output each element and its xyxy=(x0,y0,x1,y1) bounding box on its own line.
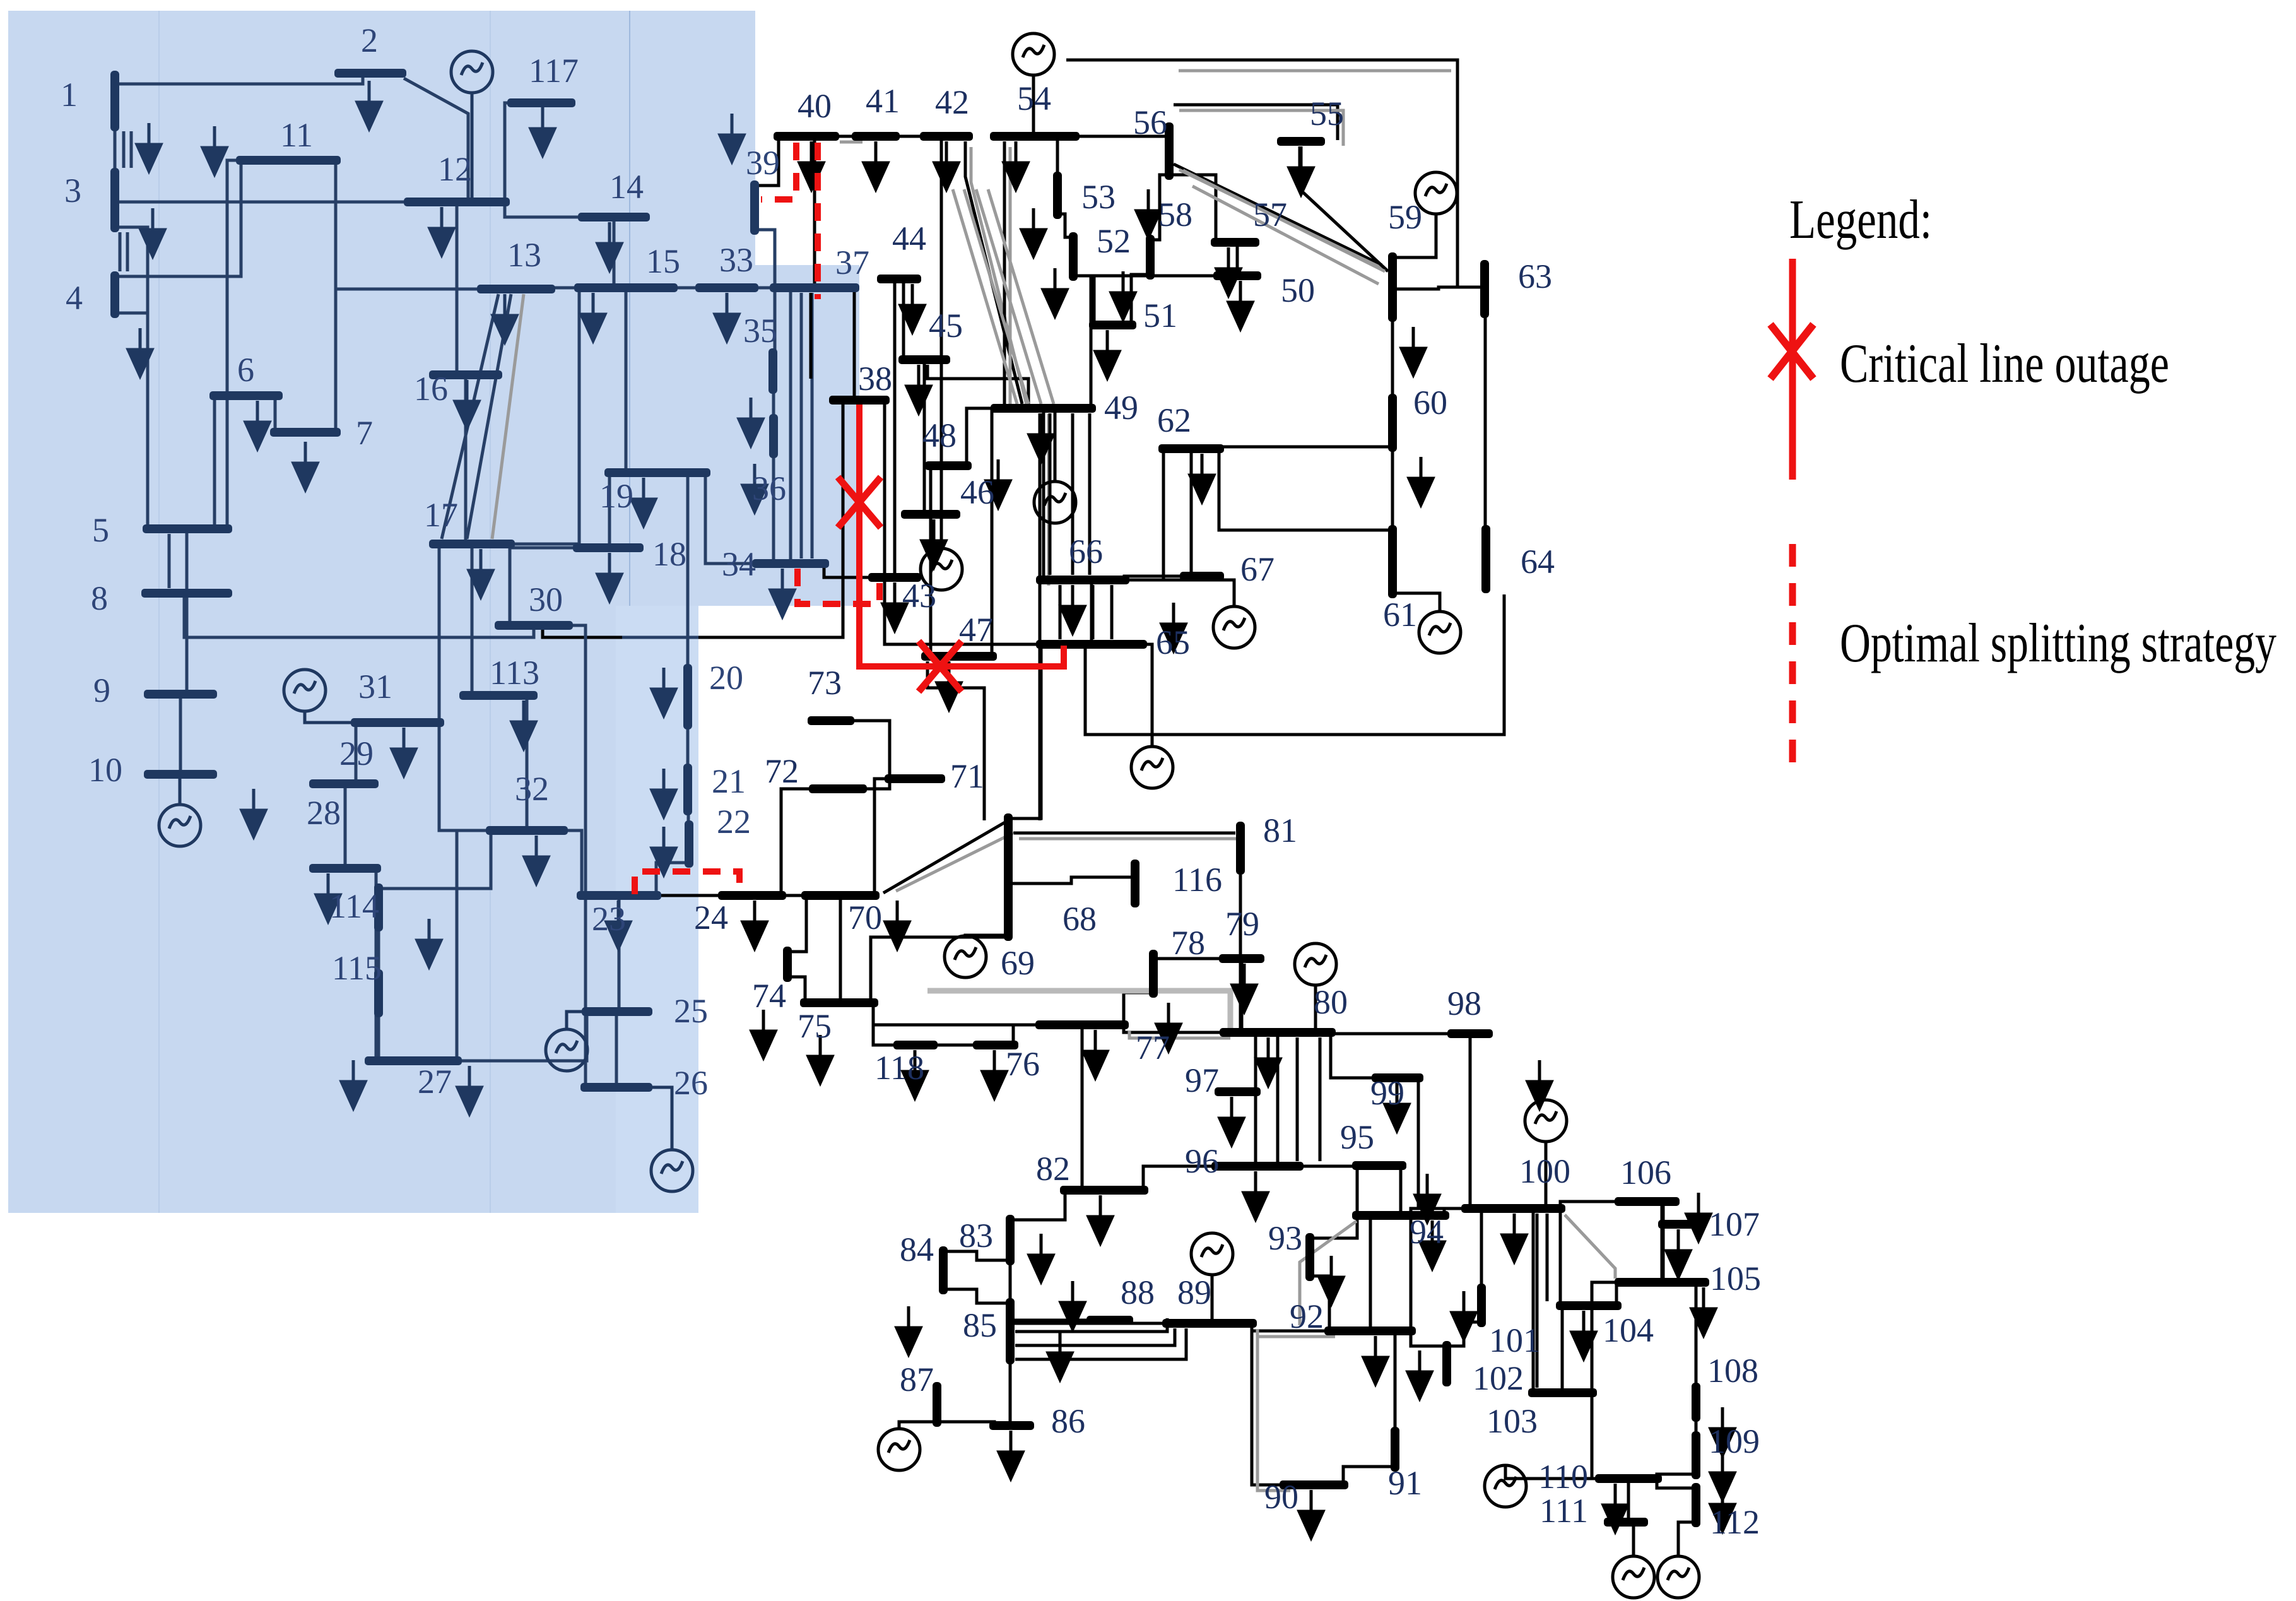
wire 28-29 xyxy=(344,784,347,868)
wire 17-18 xyxy=(510,544,578,548)
wire 95-96 xyxy=(1298,1166,1357,1166)
wire 100-101 xyxy=(1480,1208,1483,1289)
load arrow bus 83 xyxy=(1029,1234,1053,1282)
svg-text:16: 16 xyxy=(414,370,448,408)
svg-text:79: 79 xyxy=(1225,905,1259,943)
load arrow bus 14 xyxy=(598,222,621,270)
wire 30-17 xyxy=(509,544,512,625)
wire parallel circuit g10 xyxy=(492,294,524,539)
load arrow bus 58 xyxy=(1111,271,1135,319)
load arrow bus 108 xyxy=(1710,1407,1734,1455)
svg-text:Legend:: Legend: xyxy=(1789,189,1932,251)
wire parallel circuit b10 xyxy=(1319,1037,1322,1161)
wire 79-80 xyxy=(1240,959,1244,1032)
load arrow bus 50 xyxy=(1228,281,1252,329)
svg-text:5: 5 xyxy=(92,511,109,549)
svg-text:15: 15 xyxy=(646,242,680,280)
load arrow bus 78 xyxy=(1157,1003,1180,1051)
svg-text:14: 14 xyxy=(609,168,644,206)
wire parallel circuit n7 xyxy=(119,232,122,271)
wire 96-97 xyxy=(1254,1092,1257,1166)
load arrow bus 79 xyxy=(1232,964,1256,1012)
bus 66 busbar xyxy=(1036,576,1129,584)
wire generator-42 lead xyxy=(940,136,943,548)
generator at bus 100 xyxy=(1525,1100,1567,1142)
wire 4-5 xyxy=(115,313,148,529)
load arrow bus 100 xyxy=(1502,1214,1526,1261)
wire 16-17 xyxy=(464,375,468,544)
wire parallel circuit n8 xyxy=(126,232,129,271)
generator at bus 54 xyxy=(1013,33,1054,75)
svg-text:21: 21 xyxy=(712,762,746,800)
bus 18 busbar xyxy=(573,543,644,552)
svg-text:115: 115 xyxy=(332,949,382,987)
wire generator-87 lead xyxy=(899,1422,937,1429)
wire 76-118 xyxy=(933,1044,978,1047)
load arrow bus 90 xyxy=(1299,1490,1323,1538)
wire parallel circuit b1 xyxy=(1071,413,1074,575)
generator at bus 26 xyxy=(651,1150,693,1191)
bus 102 busbar xyxy=(1442,1341,1451,1386)
blue area seam line 1 xyxy=(158,11,160,1213)
wire parallel circuit b2 xyxy=(1088,413,1092,575)
bus 114 busbar xyxy=(374,883,383,931)
svg-text:90: 90 xyxy=(1264,1478,1298,1516)
wire parallel circuit b12 xyxy=(1546,1214,1549,1301)
load arrow bus 70 xyxy=(885,901,909,948)
wire 21-22 xyxy=(688,810,689,825)
wire 46-48 xyxy=(929,466,933,514)
wire 49-66 circuit 2 xyxy=(1047,414,1051,586)
wire 34-36 xyxy=(772,453,775,564)
wire 103-104 xyxy=(1561,1306,1564,1393)
wire 81-80 xyxy=(1239,875,1242,1032)
wire generator-100 lead xyxy=(1545,1142,1548,1208)
load arrow bus 11 xyxy=(203,126,227,174)
svg-text:82: 82 xyxy=(1036,1150,1070,1188)
bus 80 busbar xyxy=(1220,1028,1336,1037)
svg-text:53: 53 xyxy=(1081,178,1116,216)
wire generator-31 lead xyxy=(305,711,356,723)
svg-text:96: 96 xyxy=(1185,1142,1219,1180)
load arrow bus 34 xyxy=(770,569,794,617)
svg-text:75: 75 xyxy=(798,1007,832,1045)
bus 5 busbar xyxy=(143,524,232,533)
generator at bus 69 xyxy=(945,936,986,978)
bus 117 busbar xyxy=(507,98,575,107)
svg-text:35: 35 xyxy=(743,312,777,350)
bus 73 busbar xyxy=(808,716,854,725)
bus 42 busbar xyxy=(920,132,973,141)
bus 6 busbar xyxy=(209,391,283,400)
wire generator-12 lead xyxy=(471,93,474,202)
wire parallel circuit b4 xyxy=(1092,585,1095,639)
wire 15-33 xyxy=(673,287,700,290)
bus 9 busbar xyxy=(144,690,217,699)
generator at bus 80 xyxy=(1295,943,1336,985)
blue area seam line 3 xyxy=(629,11,630,1213)
svg-text:13: 13 xyxy=(507,236,541,274)
svg-text:106: 106 xyxy=(1620,1154,1671,1191)
wire parallel circuit n6 xyxy=(130,131,133,168)
wire 35-37 xyxy=(773,288,775,353)
wire 34-37 xyxy=(789,288,792,564)
legend: critical line outage sample xyxy=(1789,259,1796,480)
load arrow bus 106 xyxy=(1687,1193,1710,1241)
svg-text:29: 29 xyxy=(339,735,374,772)
wire parallel circuit g5 xyxy=(1192,186,1379,284)
wire 99-100 xyxy=(1418,1078,1466,1208)
wire generator-66 lead xyxy=(1124,580,1234,606)
bus 93 busbar xyxy=(1305,1233,1314,1281)
load arrow bus 94 xyxy=(1420,1220,1444,1268)
bus 97 busbar xyxy=(1215,1087,1261,1096)
wire 56-59 xyxy=(1174,164,1382,265)
wire 109-110 xyxy=(1657,1474,1696,1479)
optimal splitting dashed: bus 40 to 39 xyxy=(761,143,796,199)
wire 17-31 xyxy=(438,544,441,723)
load arrow bus 24 xyxy=(743,901,767,948)
svg-text:72: 72 xyxy=(765,752,799,790)
svg-text:95: 95 xyxy=(1340,1118,1374,1156)
generator at bus 89 xyxy=(1191,1233,1233,1275)
load arrow bus 93 xyxy=(1319,1256,1343,1304)
load arrow bus 76 xyxy=(982,1050,1006,1098)
wire 114-115 xyxy=(377,926,380,974)
svg-text:43: 43 xyxy=(902,577,936,615)
load arrow bus 97 xyxy=(1220,1097,1244,1145)
wire 27-28 xyxy=(375,868,378,1061)
load arrow bus 15 xyxy=(581,293,605,341)
svg-text:69: 69 xyxy=(1001,944,1035,982)
bus 29 busbar xyxy=(309,779,379,788)
load arrow bus 75 xyxy=(808,1035,832,1083)
bus 76 busbar xyxy=(973,1041,1018,1049)
wire 56-57 xyxy=(1169,175,1216,242)
wire generator-10 lead xyxy=(179,774,182,805)
wire 37-39 xyxy=(755,230,775,288)
bus 84 busbar xyxy=(939,1246,948,1294)
svg-text:68: 68 xyxy=(1063,900,1097,938)
wire 89-92 circuit 2 xyxy=(1257,1329,1335,1337)
load arrow bus 7 xyxy=(293,442,317,490)
bus 7 busbar xyxy=(270,428,341,437)
load arrow bus 12 xyxy=(430,207,454,255)
wire 26-25 xyxy=(615,1012,618,1087)
load arrow bus 62 xyxy=(1190,454,1214,502)
svg-text:97: 97 xyxy=(1185,1061,1219,1099)
wire 38-65 xyxy=(885,400,1041,644)
wire 49-66 xyxy=(1042,408,1045,580)
wire 13-15 xyxy=(550,288,579,289)
bus 61 busbar xyxy=(1388,525,1397,598)
wire 90-91 xyxy=(1343,1467,1395,1485)
svg-text:11: 11 xyxy=(280,116,313,154)
wire 85-88 xyxy=(1010,1319,1092,1322)
bus 24 busbar xyxy=(718,891,786,900)
load arrow bus 44 xyxy=(900,284,924,332)
svg-text:47: 47 xyxy=(959,611,993,649)
wire 23-32 xyxy=(563,830,582,895)
bus 111 busbar xyxy=(1604,1518,1648,1527)
svg-text:101: 101 xyxy=(1489,1321,1540,1359)
svg-text:67: 67 xyxy=(1240,550,1275,588)
load arrow bus 53 xyxy=(1021,208,1045,256)
svg-text:88: 88 xyxy=(1121,1273,1155,1311)
wire 101-102 xyxy=(1447,1322,1481,1346)
wire 45-49 xyxy=(927,365,1028,404)
svg-text:76: 76 xyxy=(1006,1045,1040,1083)
wire 77-80 xyxy=(1124,1025,1225,1032)
svg-text:25: 25 xyxy=(674,992,708,1030)
bus 12 busbar xyxy=(404,198,510,206)
svg-text:26: 26 xyxy=(674,1064,708,1102)
load arrow bus 57 xyxy=(1216,247,1240,295)
svg-text:92: 92 xyxy=(1290,1297,1324,1335)
bus 83 busbar xyxy=(1006,1215,1015,1265)
wire 5-6 xyxy=(213,396,216,529)
wire 63-64 xyxy=(1485,313,1486,530)
svg-text:94: 94 xyxy=(1410,1213,1444,1251)
load arrow bus 51 xyxy=(1095,330,1119,378)
wire 44-45 xyxy=(902,279,905,360)
load arrow bus 40 xyxy=(799,141,823,189)
bus 70 busbar xyxy=(801,891,880,900)
wire 103-110 xyxy=(1592,1393,1600,1479)
wire 80-97 xyxy=(1254,1032,1257,1092)
wire 89-90 circuit 2 xyxy=(1257,1329,1290,1491)
load arrow bus 114 xyxy=(417,919,441,967)
wire 68-81 circuit 2 xyxy=(1019,837,1241,841)
load arrow bus 92 xyxy=(1363,1336,1387,1384)
wire 69-70 xyxy=(883,820,1008,893)
wire 108-109 xyxy=(1695,1417,1698,1436)
load arrow bus 41 xyxy=(864,141,888,189)
load arrow bus 43 xyxy=(883,582,907,630)
load arrow bus 104 xyxy=(1572,1311,1596,1359)
wire parallel circuit b7 xyxy=(1015,1328,1175,1345)
wire parallel circuit b13 xyxy=(809,293,813,379)
bus 38 busbar xyxy=(829,396,890,405)
svg-text:104: 104 xyxy=(1603,1311,1654,1349)
bus 71 busbar xyxy=(885,774,945,783)
load arrow bus 48 xyxy=(986,459,1010,507)
wire 51-58 xyxy=(1131,275,1150,325)
wire 42-49 xyxy=(965,141,1022,404)
svg-text:39: 39 xyxy=(746,144,780,182)
wire parallel circuit b9 xyxy=(1296,1037,1299,1161)
svg-text:Optimal splitting strategy: Optimal splitting strategy xyxy=(1840,613,2276,674)
bus 22 busbar xyxy=(685,820,693,868)
bus 41 busbar xyxy=(852,132,900,141)
blue area: region 1 background xyxy=(8,11,755,265)
bus 45 busbar xyxy=(898,355,950,364)
svg-text:73: 73 xyxy=(808,664,842,702)
wire 2-12 xyxy=(404,78,468,198)
wire 23-25 xyxy=(618,895,621,1012)
load arrow bus 52 xyxy=(1043,268,1067,316)
bus 59 busbar xyxy=(1388,252,1397,322)
svg-text:100: 100 xyxy=(1519,1152,1570,1190)
load arrow bus 102 xyxy=(1408,1350,1432,1398)
wire 91-92 xyxy=(1394,1331,1397,1432)
svg-text:32: 32 xyxy=(515,770,549,808)
bus 79 busbar xyxy=(1219,954,1264,963)
bus 15 busbar xyxy=(574,283,678,292)
bus 53 busbar xyxy=(1053,172,1062,219)
svg-text:54: 54 xyxy=(1017,80,1051,117)
wire 49-54 circuit 2 xyxy=(1009,147,1012,410)
generator at bus 65 xyxy=(1131,747,1173,788)
load arrow bus 39 xyxy=(720,114,744,162)
bus 72 busbar xyxy=(809,784,867,793)
svg-text:2: 2 xyxy=(361,21,378,59)
svg-text:114: 114 xyxy=(329,887,379,925)
wire 27-115 xyxy=(377,1012,380,1061)
svg-text:7: 7 xyxy=(356,414,373,452)
bus 62 busbar xyxy=(1158,444,1224,453)
bus 110 busbar xyxy=(1595,1474,1662,1483)
bus 91 busbar xyxy=(1391,1427,1399,1472)
wire 17-113 xyxy=(471,544,474,695)
generator at bus 87 xyxy=(878,1429,920,1470)
wire 82-96 xyxy=(1143,1166,1216,1190)
svg-text:56: 56 xyxy=(1133,103,1167,141)
svg-text:52: 52 xyxy=(1097,222,1131,260)
bus 50 busbar xyxy=(1213,271,1261,280)
wire parallel circuit b8 xyxy=(1015,1328,1186,1359)
wire generator-59 lead xyxy=(1392,214,1436,257)
load arrow bus 118 xyxy=(903,1050,927,1098)
wire 32-113 xyxy=(526,695,529,830)
wire 25-27 xyxy=(457,1012,587,1061)
svg-text:23: 23 xyxy=(592,900,626,938)
svg-text:109: 109 xyxy=(1709,1422,1760,1460)
wire 39-40 xyxy=(755,136,779,186)
svg-text:103: 103 xyxy=(1487,1402,1538,1440)
load arrow bus 74 xyxy=(751,1010,775,1058)
outage X mark on line 38-37 xyxy=(838,477,881,528)
bus 2 busbar xyxy=(334,69,406,78)
bus 101 busbar xyxy=(1477,1284,1486,1327)
bus 47 busbar xyxy=(921,652,997,661)
wire 49-69 xyxy=(1039,413,1042,820)
wire 56-58 xyxy=(1150,175,1169,240)
bus 58 busbar xyxy=(1146,235,1155,280)
svg-text:80: 80 xyxy=(1314,983,1348,1021)
load arrow bus 96 xyxy=(1244,1171,1268,1219)
wire 15-17 xyxy=(510,288,579,544)
wire 94-95 xyxy=(1399,1166,1403,1215)
load arrow bus 59 xyxy=(1401,327,1425,375)
bus 25 busbar xyxy=(582,1007,652,1016)
wire 59-61 xyxy=(1391,317,1394,530)
load arrow bus 60 xyxy=(1409,457,1433,505)
wire 65-66 xyxy=(1090,580,1093,644)
wire parallel circuit n3 xyxy=(442,294,498,539)
wire 12-14 xyxy=(505,202,583,217)
wire 19-20 xyxy=(686,473,690,669)
wire 65-68 xyxy=(1008,644,1041,818)
wire 46-47 xyxy=(929,514,933,656)
load arrow bus 22 xyxy=(652,827,676,875)
wire parallel circuit g4 xyxy=(1183,170,1385,271)
bus 56 busbar xyxy=(1165,122,1174,180)
wire 19-34 xyxy=(705,473,757,564)
svg-text:9: 9 xyxy=(93,671,110,709)
bus 75 busbar xyxy=(800,998,878,1007)
bus 109 busbar xyxy=(1692,1431,1700,1479)
generator at bus 25 xyxy=(546,1029,587,1071)
load arrow bus 85 xyxy=(1048,1332,1072,1379)
outage X mark on line 47-49 xyxy=(919,641,962,692)
bus 37 busbar xyxy=(770,283,859,292)
bus 86 busbar xyxy=(989,1421,1034,1430)
bus 49 busbar xyxy=(991,404,1096,413)
wire generator-80 lead xyxy=(1314,985,1317,1032)
wire parallel circuit b5 xyxy=(1110,585,1114,639)
load arrow bus 101 xyxy=(1452,1291,1476,1339)
wire 4-11 xyxy=(115,160,241,276)
svg-text:81: 81 xyxy=(1263,812,1297,849)
wire 110-112 xyxy=(1657,1479,1696,1488)
wire 3-5 xyxy=(115,227,148,529)
svg-text:48: 48 xyxy=(922,416,957,454)
wire 12-16 xyxy=(456,202,459,375)
svg-text:89: 89 xyxy=(1177,1273,1211,1311)
bus 74 busbar xyxy=(783,947,792,982)
generator at bus 12 xyxy=(451,51,493,93)
bus 23 busbar xyxy=(577,891,661,900)
svg-text:87: 87 xyxy=(900,1361,934,1398)
bus 90 busbar xyxy=(1280,1480,1348,1489)
svg-text:57: 57 xyxy=(1253,196,1287,233)
svg-text:93: 93 xyxy=(1268,1219,1302,1257)
wire 27-32 xyxy=(457,830,491,1061)
svg-text:38: 38 xyxy=(858,360,892,398)
load arrow bus 33 xyxy=(715,293,739,341)
generator at bus 42 xyxy=(921,548,962,590)
svg-text:18: 18 xyxy=(652,535,686,573)
wire 92-93 xyxy=(1310,1276,1329,1331)
wire 59-60 xyxy=(1391,317,1394,399)
generator at bus 49 xyxy=(1034,481,1076,523)
wire 49-50 xyxy=(1091,276,1218,408)
wire parallel circuit g0 xyxy=(953,189,1017,404)
svg-text:8: 8 xyxy=(91,579,108,617)
svg-text:10: 10 xyxy=(88,751,122,789)
svg-text:45: 45 xyxy=(929,307,963,345)
bus 21 busbar xyxy=(683,764,692,815)
wire parallel circuit n10 xyxy=(622,636,698,639)
svg-text:59: 59 xyxy=(1388,198,1422,236)
svg-text:24: 24 xyxy=(694,899,728,936)
load arrow bus 27 xyxy=(457,1066,481,1114)
wire 8-9 xyxy=(185,593,189,694)
bus 20 busbar xyxy=(683,664,692,730)
generator at bus 112 xyxy=(1657,1556,1699,1598)
load arrow bus 4 xyxy=(128,328,152,376)
wire generator-49 lead xyxy=(1054,408,1057,481)
wire 54-59 xyxy=(1066,60,1484,287)
wire 1-2 xyxy=(117,77,363,84)
bus 30 busbar xyxy=(495,621,573,630)
load arrow bus 17 xyxy=(469,549,493,597)
wire 31-32 xyxy=(439,723,491,830)
wire 77-78 xyxy=(1124,993,1153,1025)
svg-text:61: 61 xyxy=(1383,596,1417,634)
svg-text:36: 36 xyxy=(752,470,786,507)
